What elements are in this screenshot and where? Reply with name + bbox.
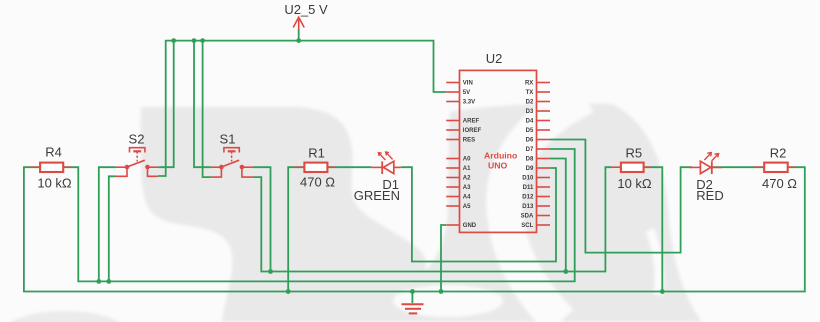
svg-text:AREF: AREF [463,119,480,125]
junction ground rail at R1 [286,289,291,294]
svg-text:D4: D4 [526,119,534,125]
svg-text:A3: A3 [463,185,471,191]
arduino left pin labels [463,81,482,230]
wire S1 lower right pin to R5 net [253,167,611,271]
svg-text:S2: S2 [129,132,145,147]
svg-text:5V: 5V [463,90,470,96]
wire R4 to D7 net [63,149,574,281]
svg-text:D7: D7 [526,147,534,153]
svg-text:10 kΩ: 10 kΩ [617,176,652,191]
svg-text:Arduino: Arduino [484,151,517,161]
resistor R5 [611,146,652,192]
wire D8 pin down to S1-R5 net [550,159,566,272]
arduino left pins [446,83,459,226]
wire D2 cathode to R2 [712,166,765,168]
resistor R1 [294,146,336,190]
svg-text:R1: R1 [308,146,325,161]
svg-text:RED: RED [696,188,723,203]
wire R1 right to D1 [327,166,371,168]
switch S1 [211,132,253,178]
junction S1 net at D8 [563,269,568,274]
svg-text:A1: A1 [463,166,471,172]
wire 5V top rail [158,41,446,176]
svg-text:A0: A0 [463,157,471,163]
svg-text:D12: D12 [522,195,534,201]
svg-text:A2: A2 [463,176,471,182]
svg-text:R4: R4 [45,145,62,160]
svg-text:R2: R2 [770,146,787,161]
resistor R4 [30,145,73,191]
svg-text:R5: R5 [625,146,642,161]
svg-text:TX: TX [526,90,534,96]
wire S1 upper right pin down [253,167,271,271]
wire S2 lower left pin down [109,176,116,281]
junction on 5V rail x174 [171,38,176,43]
svg-text:U2: U2 [486,51,503,66]
svg-text:D6: D6 [526,138,534,144]
arduino U2 [460,51,537,232]
svg-text:RES: RES [463,138,475,144]
junction on 5V rail x203 [200,38,205,43]
wire S1 upper left pin to 5V rail [194,41,211,168]
junction ground rail at R5 [660,289,665,294]
wire ground symbol stem [411,292,413,304]
wire R5 right to ground rail [644,167,663,291]
svg-text:RX: RX [525,81,533,87]
svg-text:U2_5 V: U2_5 V [284,2,328,17]
svg-text:D5: D5 [526,128,534,134]
svg-text:D2: D2 [526,100,534,106]
wire D6 pin to D2 anode [550,140,692,253]
wire D1 to D9 pin [401,167,556,261]
junction ground rail at arduino GND [439,289,444,294]
junction ground rail at ground symbol [410,289,415,294]
svg-text:S1: S1 [220,132,236,147]
svg-text:A5: A5 [463,204,471,210]
svg-text:D9: D9 [526,166,534,172]
power U2_5V [284,2,328,41]
svg-text:GREEN: GREEN [354,188,400,203]
switch S2 [116,132,158,177]
wire S1 lower left pin to 5V rail [203,41,211,178]
wire R1 left to ground rail [288,167,304,291]
svg-text:VIN: VIN [463,81,473,87]
ground [402,304,424,313]
svg-text:470 Ω: 470 Ω [762,176,797,191]
junction on 5V rail at power arrow [296,38,301,43]
svg-text:SCL: SCL [521,223,533,229]
junction S1 net x270 [268,269,273,274]
arduino right pin labels [521,81,534,230]
wire arduino GND pin to rail [441,225,446,292]
svg-text:GND: GND [463,223,477,229]
svg-text:D13: D13 [522,204,534,210]
svg-text:470 Ω: 470 Ω [300,175,335,190]
svg-text:D8: D8 [526,157,534,163]
svg-text:D3: D3 [526,109,534,115]
svg-text:D10: D10 [522,176,534,182]
svg-text:UNO: UNO [488,161,508,171]
svg-text:D11: D11 [523,185,534,191]
svg-text:SDA: SDA [521,214,534,220]
LED D1 GREEN [354,152,401,203]
wire ground rail R4 to R2 [24,167,805,291]
LED D2 RED [689,153,724,203]
svg-text:IOREF: IOREF [463,128,482,134]
junction S2 net x99 [96,279,101,284]
junction S2 net x109 [106,279,111,284]
junction on 5V rail x194 [192,38,197,43]
resistor R2 [754,146,798,192]
svg-text:3.3V: 3.3V [463,100,475,106]
svg-text:10 kΩ: 10 kΩ [37,176,72,191]
svg-text:A4: A4 [463,195,471,201]
wire S2 upper left pin down [99,167,116,281]
arduino right pins [537,83,551,226]
wire S2 right pin to 5V rail [158,41,174,168]
